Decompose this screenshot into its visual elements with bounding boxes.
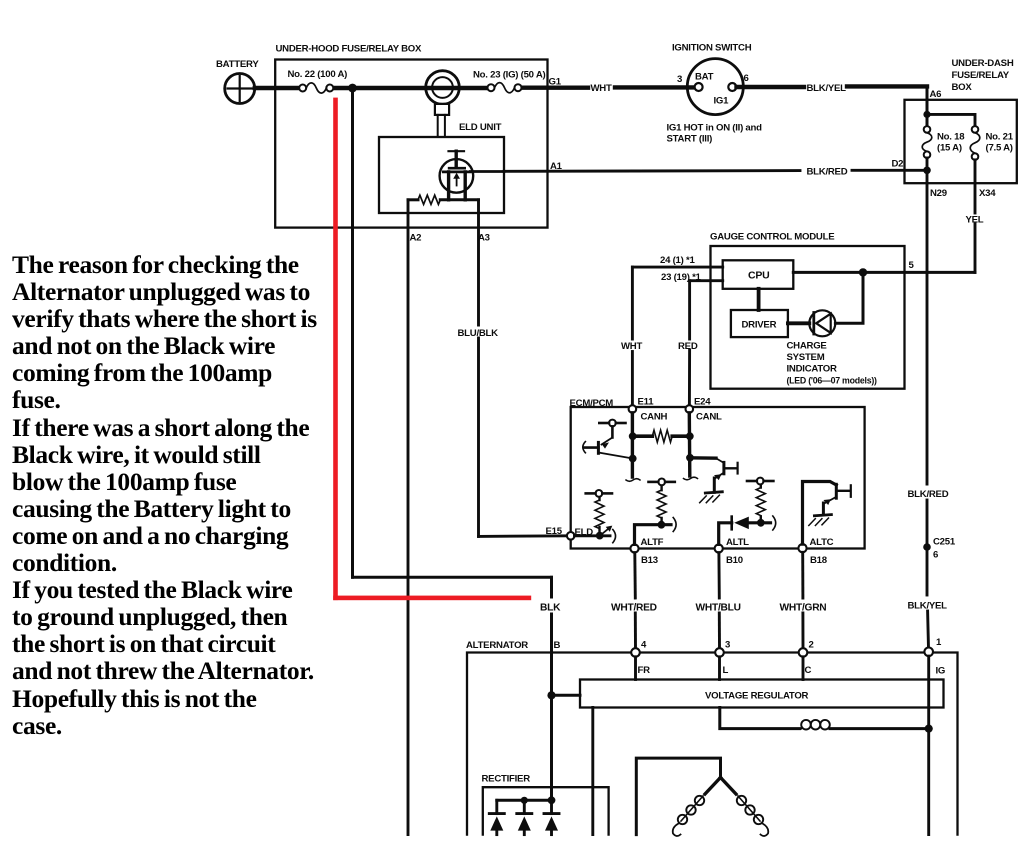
svg-text:(15 A): (15 A) <box>937 143 962 154</box>
emitter arrow at ELD comparator <box>603 526 616 543</box>
svg-text:GAUGE CONTROL MODULE: GAUGE CONTROL MODULE <box>710 232 835 243</box>
svg-text:6: 6 <box>933 550 938 561</box>
break mark E11 <box>626 479 640 482</box>
DRIVER box <box>731 310 788 337</box>
stator winding left phase <box>673 778 721 837</box>
CAN terminating resistor <box>652 430 672 442</box>
wire fuse22 to fuse23 main bus <box>333 86 487 90</box>
svg-text:YEL: YEL <box>966 215 984 226</box>
rectifier diode 1 <box>489 800 504 834</box>
svg-text:4: 4 <box>641 640 647 651</box>
node E11 lower <box>629 455 637 463</box>
svg-text:ALTF: ALTF <box>641 537 664 548</box>
fuse No.18 (15 A) <box>922 126 932 158</box>
svg-text:RECTIFIER: RECTIFIER <box>482 774 531 785</box>
wire A1 BLK/RED from ELD to D2 (gaps for label) <box>504 169 800 173</box>
svg-text:VOLTAGE REGULATOR: VOLTAGE REGULATOR <box>705 691 809 702</box>
svg-text:CHARGE: CHARGE <box>787 341 828 352</box>
wire 24(1)*1 WHT into CPU <box>632 266 722 269</box>
svg-text:BLK/RED: BLK/RED <box>807 167 848 178</box>
svg-text:A6: A6 <box>930 89 942 100</box>
svg-text:START (III): START (III) <box>667 134 713 145</box>
svg-text:2: 2 <box>809 640 814 651</box>
break mark ALTL <box>773 516 776 530</box>
connector C251 node <box>923 543 931 551</box>
transistor Q1 (CANH PNP) <box>583 420 633 459</box>
svg-text:IG1 HOT in ON (II) and: IG1 HOT in ON (II) and <box>667 123 763 134</box>
rectifier diode 2 <box>517 800 532 834</box>
svg-text:CANH: CANH <box>641 412 668 423</box>
terminal 1 <box>924 648 933 657</box>
wire junction down to BLK turn <box>351 88 354 577</box>
wire ALTC up to transistor Q3 <box>803 482 837 545</box>
fuse No.22 (100 A) <box>299 83 333 93</box>
wire regulator down left <box>591 708 594 835</box>
svg-text:BLU/BLK: BLU/BLK <box>458 328 499 339</box>
ground Q3 <box>809 515 832 526</box>
wire X34 YEL down (gap for label) <box>974 160 977 213</box>
svg-text:24 (1) *1: 24 (1) *1 <box>660 255 695 266</box>
wire BLK horizontal run <box>353 576 552 579</box>
terminal 3 <box>715 648 724 657</box>
wire B10 WHT/BLU down (gap for label) <box>717 553 720 598</box>
svg-text:ECM/PCM: ECM/PCM <box>570 398 614 409</box>
svg-text:D2: D2 <box>892 159 904 170</box>
svg-text:B18: B18 <box>810 555 828 566</box>
svg-text:A3: A3 <box>478 233 490 244</box>
svg-text:IG1: IG1 <box>714 96 730 107</box>
wire A2 down full length <box>407 200 410 835</box>
wire battery to fuse box <box>255 86 299 90</box>
svg-text:6: 6 <box>744 73 749 84</box>
fuse No.21 (7.5 A) <box>970 126 980 160</box>
ELD pull-up resistor <box>598 497 600 531</box>
svg-text:No. 18: No. 18 <box>937 132 965 143</box>
terminal 4 <box>631 648 640 657</box>
internal supply connector (ALTF) <box>649 479 675 486</box>
svg-text:WHT/RED: WHT/RED <box>611 603 657 614</box>
svg-text:CANL: CANL <box>696 412 722 423</box>
svg-text:23 (19) *1: 23 (19) *1 <box>661 272 702 283</box>
break mark E24 <box>684 477 698 480</box>
svg-text:INDICATOR: INDICATOR <box>787 364 837 375</box>
svg-text:G1: G1 <box>549 77 562 88</box>
ECM/PCM box <box>571 407 865 549</box>
terminal 2 <box>799 648 808 657</box>
wire DRIVER to LED <box>788 321 809 325</box>
wire C into regulator <box>802 657 805 680</box>
svg-text:BLK/YEL: BLK/YEL <box>908 601 948 612</box>
wire CPU pin5 horizontal to YEL <box>793 271 975 274</box>
under-dash fuse/relay box <box>905 100 1017 183</box>
svg-text:ELD: ELD <box>575 527 594 538</box>
wire fuse18 to D2 node <box>926 158 929 170</box>
battery <box>225 74 255 104</box>
svg-text:B: B <box>554 640 561 651</box>
transistor Q2 (CANL NPN with ground) <box>690 458 738 493</box>
node IG inductor junction <box>925 725 933 733</box>
ground Q2 <box>700 492 723 503</box>
svg-text:A1: A1 <box>550 161 563 172</box>
svg-text:A2: A2 <box>410 233 422 244</box>
ELD MOSFET <box>440 151 474 200</box>
wire WHT to ignition pin 3 <box>615 85 695 89</box>
wire fuse23 to G1 exit and WHT gap <box>522 85 588 89</box>
terminal E24 <box>686 405 694 413</box>
svg-text:BLK/RED: BLK/RED <box>908 489 949 500</box>
stator winding right phase <box>721 778 769 837</box>
svg-text:SYSTEM: SYSTEM <box>787 352 825 363</box>
node ALTL <box>757 519 765 527</box>
wire BLK down to alternator (gap for label) <box>550 577 553 597</box>
svg-text:(7.5 A): (7.5 A) <box>986 143 1013 154</box>
svg-text:WHT: WHT <box>621 341 642 352</box>
svg-text:3: 3 <box>725 640 730 651</box>
under-hood fuse/relay box <box>275 60 547 228</box>
wire E24 internal <box>688 413 692 476</box>
svg-text:IGNITION SWITCH: IGNITION SWITCH <box>672 43 752 54</box>
internal supply connector (ELD) <box>586 490 612 497</box>
red highlight wire horizontal <box>333 596 531 601</box>
svg-text:ALTC: ALTC <box>810 537 834 548</box>
svg-text:No. 23 (IG) (50 A): No. 23 (IG) (50 A) <box>473 70 545 81</box>
red highlight wire vertical <box>333 98 338 600</box>
svg-text:UNDER-HOOD FUSE/RELAY BOX: UNDER-HOOD FUSE/RELAY BOX <box>276 44 423 55</box>
wire E11 internal <box>631 413 634 477</box>
terminal E11 <box>629 405 637 413</box>
svg-text:L: L <box>723 665 729 676</box>
node rectifier B <box>548 796 556 804</box>
rectifier bus <box>497 799 552 802</box>
svg-text:WHT: WHT <box>591 83 612 94</box>
transistor Q3 (ALTC NPN with ground) <box>823 484 850 514</box>
svg-text:FUSE/RELAY: FUSE/RELAY <box>952 70 1010 81</box>
break mark ALTF <box>673 518 676 532</box>
svg-text:CPU: CPU <box>748 270 769 282</box>
wire 23(19)*1 RED into CPU <box>690 279 723 282</box>
alternator box <box>467 653 958 835</box>
node E24 upper <box>686 432 694 440</box>
CPU box <box>723 260 794 289</box>
wire FR into regulator <box>634 657 637 680</box>
voltage regulator box <box>580 680 944 708</box>
wire A3 / BLU BLK down (gap for label) <box>477 200 480 325</box>
wire N29 BLK/RED down right side (gaps for labels) <box>926 170 929 484</box>
rectifier box <box>483 787 609 834</box>
wire RED down to E24 (gap for label) <box>688 281 691 339</box>
svg-text:BATTERY: BATTERY <box>216 59 259 70</box>
ELD current sensor ring <box>426 71 460 137</box>
wire node down to LED <box>835 272 863 323</box>
svg-text:B13: B13 <box>641 555 658 566</box>
wire B18 WHT/GRN down (gap for label) <box>801 552 804 598</box>
terminal ALTC B18 <box>798 544 806 552</box>
wire L output to inductor <box>720 708 800 729</box>
svg-text:IG: IG <box>936 666 946 677</box>
svg-text:3: 3 <box>677 74 682 85</box>
stator winding frame <box>636 758 720 835</box>
rectifier diode 3 <box>544 800 559 834</box>
svg-text:No. 22 (100 A): No. 22 (100 A) <box>288 69 348 80</box>
svg-text:C251: C251 <box>933 537 956 548</box>
svg-text:X34: X34 <box>979 188 996 199</box>
ALTF pull-up resistor <box>660 487 662 521</box>
node ALTF <box>658 521 666 529</box>
ELD drain wire to A1 <box>470 170 504 173</box>
wire B13 WHT/RED down (gap for label) <box>633 553 636 598</box>
svg-text:WHT/GRN: WHT/GRN <box>780 603 827 614</box>
wire branch to fuse 21 <box>927 114 975 126</box>
svg-text:N29: N29 <box>930 188 947 199</box>
svg-text:RED: RED <box>678 341 698 352</box>
node rectifier mid <box>521 797 528 804</box>
wire BLK/YEL to under-dash A6 corner <box>847 84 927 88</box>
node on CPU output <box>859 268 867 276</box>
terminal ALTF B13 <box>630 544 638 552</box>
charge system indicator LED <box>809 310 835 336</box>
node ELD <box>596 532 604 540</box>
svg-text:C: C <box>805 665 812 676</box>
wire L into regulator <box>718 657 721 680</box>
svg-text:ALTERNATOR: ALTERNATOR <box>466 640 528 651</box>
internal supply connector (ALTL) <box>747 478 773 485</box>
svg-text:DRIVER: DRIVER <box>742 320 777 331</box>
svg-text:WHT/BLU: WHT/BLU <box>696 603 741 614</box>
terminal ALTL B10 <box>715 544 723 552</box>
ELD bus right to A3 <box>440 198 478 201</box>
svg-text:1: 1 <box>936 637 942 648</box>
svg-text:ALTL: ALTL <box>726 537 749 548</box>
svg-text:BLK/YEL: BLK/YEL <box>807 83 847 94</box>
node E24 lower <box>686 454 694 462</box>
resistor in ELD unit <box>418 195 440 204</box>
wire CPU to DRIVER <box>757 289 761 310</box>
CAN terminating resistor leads <box>633 434 653 438</box>
svg-text:No. 21: No. 21 <box>986 132 1014 143</box>
svg-text:B10: B10 <box>726 555 743 566</box>
svg-text:E24: E24 <box>694 397 711 408</box>
junction node below fuse 22 <box>348 84 357 93</box>
node D2 junction <box>923 167 931 175</box>
gauge control module box <box>711 246 905 389</box>
wire B node to regulator <box>552 694 581 697</box>
terminal E15 ELD <box>567 532 575 540</box>
node E11 upper <box>629 432 637 440</box>
rotor field coil L1 <box>800 720 929 730</box>
wire ALTF up and right to node <box>635 525 672 545</box>
ignition switch <box>687 59 743 115</box>
svg-text:E11: E11 <box>638 397 655 408</box>
svg-text:BAT: BAT <box>695 72 714 83</box>
svg-text:BLK: BLK <box>540 603 561 614</box>
svg-text:FR: FR <box>638 665 651 676</box>
wire ignition pin6 to BLK/YEL gap <box>737 85 805 89</box>
ALTL pull-up resistor <box>760 485 762 519</box>
wire A3 to E15 <box>479 534 568 538</box>
wire IG down through regulator <box>927 656 930 835</box>
svg-text:E15: E15 <box>546 526 563 537</box>
svg-text:ELD UNIT: ELD UNIT <box>459 122 502 133</box>
node B wire to regulator <box>547 691 555 699</box>
svg-text:5: 5 <box>909 260 915 271</box>
wire ALTL up to diode <box>719 523 732 545</box>
svg-text:BOX: BOX <box>952 82 973 93</box>
wire E15 to node <box>575 534 611 537</box>
ELD bottom bus with A2 lead <box>408 198 418 201</box>
fuse No.23 (IG)(50 A) <box>488 83 522 93</box>
wire WHT down to E11 (gap for label) <box>631 267 634 339</box>
svg-text:UNDER-DASH: UNDER-DASH <box>952 58 1014 69</box>
node A6 branch <box>923 111 930 118</box>
diode D1 (ALTL) <box>732 517 771 530</box>
svg-text:(LED ('06—07 models)): (LED ('06—07 models)) <box>787 376 878 386</box>
ELD unit box <box>379 137 504 213</box>
wire BLK/YEL down to alternator term 1 <box>926 551 929 595</box>
